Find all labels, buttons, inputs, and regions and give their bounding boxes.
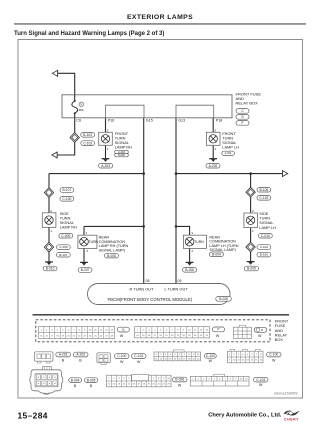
svg-text:W: W (209, 359, 213, 363)
table tab (173, 350, 184, 352)
connector label B-004 (69, 378, 82, 383)
splice connector B-103/C-103 (70, 133, 79, 143)
wire down to rear lamp RH pin 4 (83, 226, 85, 235)
connector label C-102 (132, 354, 147, 359)
ground side RH ground (45, 262, 53, 265)
svg-text:2: 2 (107, 128, 109, 132)
connector label B-205 (244, 266, 258, 271)
connector label C-010 (259, 233, 273, 238)
wire through fuse (74, 95, 76, 101)
svg-text:C-100: C-100 (62, 197, 71, 201)
svg-text:A-021: A-021 (225, 152, 232, 155)
svg-text:SIGNAL LAMP): SIGNAL LAMP) (99, 248, 126, 252)
connector label A-202 (206, 163, 220, 168)
connector label B-207 (78, 268, 92, 273)
wire lower splice RH to ground (48, 252, 50, 263)
ground front LH lamp ground (209, 159, 217, 162)
svg-text:TURN: TURN (89, 240, 99, 244)
diagram border frame (18, 40, 303, 399)
fuse box strip connector G (117, 327, 129, 332)
svg-text:2: 2 (215, 128, 217, 132)
svg-text:4: 4 (191, 231, 193, 235)
wire side lamp RH to lower splice (48, 228, 50, 243)
internal bus G13-P18 (176, 105, 214, 118)
off-page arrow (hazard feed, upper left) (52, 70, 57, 77)
header rule (14, 23, 306, 24)
fuse box strip connector CD (254, 327, 266, 332)
wire rear lamp LH to ground (189, 248, 191, 262)
connector label B-006 small (115, 153, 129, 157)
svg-text:W: W (178, 383, 182, 387)
svg-text:B: B (79, 359, 82, 363)
svg-text:W: W (137, 360, 141, 364)
splice connector splice LH upper (246, 187, 255, 197)
svg-text:C-103: C-103 (83, 141, 92, 145)
svg-text:LAMP LH: LAMP LH (222, 144, 239, 149)
wire splice to side turn signal lamp RH (48, 197, 50, 213)
svg-text:P: P (217, 328, 219, 332)
fuse box pin table 2 (135, 327, 210, 338)
svg-text:xterna150059: xterna150059 (274, 391, 298, 396)
svg-text:RELAY BOX: RELAY BOX (236, 101, 259, 106)
connector label B-106 (257, 187, 271, 192)
relay pin grid (234, 325, 252, 338)
svg-text:30A: 30A (78, 108, 84, 112)
svg-text:2: 2 (50, 209, 52, 213)
wire G13 to FBCM pin 09 (175, 118, 177, 284)
off-page arrow (to page 3, right) (283, 170, 288, 177)
connector label B-206 (183, 268, 197, 273)
svg-text:P: P (241, 121, 243, 125)
svg-text:1: 1 (50, 229, 52, 233)
wire splice to side turn signal lamp LH (250, 197, 252, 213)
svg-text:L TURN OUT: L TURN OUT (165, 287, 189, 292)
connector label A-203 (73, 352, 88, 357)
connector label C-100 (115, 354, 130, 359)
svg-text:B-210: B-210 (46, 267, 55, 271)
wire fuse output C6 to splice (74, 118, 76, 133)
svg-text:G13: G13 (178, 119, 185, 123)
svg-text:LAMP RH: LAMP RH (115, 144, 132, 149)
fuse box connector C (236, 109, 249, 114)
connector label C-009 (59, 233, 73, 238)
splice connector splice LH lower (246, 242, 255, 252)
svg-text:G15: G15 (146, 119, 153, 123)
connector label C-120 (205, 354, 217, 359)
junction node side LH (249, 172, 252, 175)
svg-text:B-026: B-026 (175, 378, 184, 382)
front turn signal lamp LH (206, 132, 220, 145)
rear combination lamp RH (turn signal lamp) (78, 235, 99, 248)
svg-text:C-120: C-120 (206, 354, 215, 358)
connector label C-102 (257, 245, 271, 250)
junction node G15/side RH (142, 172, 145, 175)
connector table C-100b (227, 351, 263, 363)
svg-text:B: B (62, 359, 65, 363)
svg-text:15–284: 15–284 (18, 411, 48, 421)
svg-text:W: W (272, 358, 276, 362)
fuse box connector G (236, 115, 249, 120)
svg-text:A-202: A-202 (59, 353, 68, 357)
connector table C-120 (154, 352, 201, 361)
svg-text:W: W (216, 334, 220, 338)
svg-text:1: 1 (215, 147, 217, 151)
svg-text:BOX: BOX (275, 337, 284, 342)
connector label B-004 (209, 252, 223, 257)
connector table B-026 (107, 375, 172, 387)
fuse box connector P (236, 121, 249, 126)
splice connector splice RH upper (44, 188, 53, 198)
svg-text:3: 3 (191, 249, 193, 253)
svg-text:A-202: A-202 (209, 164, 218, 168)
rear combination lamp LH (turn signal lamp) (183, 235, 206, 248)
connector label B-026 (173, 377, 188, 382)
ground rear RH ground (80, 262, 88, 265)
wire front turn signal lamp RH to ground (105, 145, 107, 159)
svg-text:Chery Automobile Co., Ltd.: Chery Automobile Co., Ltd. (208, 412, 282, 418)
side turn signal lamp LH (244, 213, 258, 228)
svg-text:C-103: C-103 (256, 378, 265, 382)
connector face C-100/C-102 (97, 353, 110, 365)
svg-text:A-203: A-203 (101, 164, 110, 168)
front fuse and relay box (62, 95, 232, 118)
svg-text:B-106: B-106 (259, 188, 268, 192)
svg-text:TURN: TURN (194, 240, 204, 244)
svg-text:2: 2 (252, 209, 254, 213)
off-page arrow (to page 1, lower left) (52, 152, 57, 159)
svg-text:C-102: C-102 (260, 245, 269, 249)
svg-text:B-005: B-005 (107, 254, 116, 258)
svg-text:W: W (258, 334, 262, 338)
svg-text:C-100: C-100 (269, 353, 278, 357)
svg-text:C-010: C-010 (261, 234, 270, 238)
connector label C-103 (81, 141, 95, 146)
connector label A-203 small (115, 150, 129, 154)
svg-text:B-106: B-106 (260, 253, 268, 257)
wire branch to rear combination lamp RH (84, 225, 144, 227)
svg-text:C-102: C-102 (259, 196, 268, 200)
connector label C-100 (60, 197, 74, 202)
svg-text:A-203: A-203 (76, 353, 85, 357)
svg-text:1: 1 (252, 229, 254, 233)
table tabs (230, 349, 235, 351)
connector label B-107 (57, 252, 71, 257)
internal bus P16-G15 (106, 105, 145, 118)
ground front RH lamp ground (102, 159, 110, 162)
svg-text:B-006: B-006 (118, 154, 125, 157)
wire G15 to FBCM pin 08 (143, 118, 145, 284)
junction node G13/rear LH (175, 225, 178, 228)
wire down to splice LH (250, 174, 252, 188)
svg-text:B-107: B-107 (62, 188, 71, 192)
wire branch to rear combination lamp LH pin 4 (176, 226, 190, 235)
svg-text:C6: C6 (76, 119, 81, 123)
svg-text:B: B (90, 384, 93, 388)
svg-text:CHERY: CHERY (284, 417, 299, 421)
svg-text:R TURN OUT: R TURN OUT (130, 287, 155, 292)
connector label B-107 (60, 188, 74, 193)
svg-text:P18: P18 (216, 119, 223, 123)
connector face B-004/B-005 (8 pin) (30, 367, 63, 395)
FBCM front body control module (88, 284, 231, 305)
connector label B-106 (257, 252, 271, 257)
separator rule (33, 314, 290, 316)
svg-text:1: 1 (107, 147, 109, 151)
wire front turn signal lamp LH to ground (212, 145, 214, 159)
connector label B-005 (105, 253, 119, 258)
svg-text:B-026: B-026 (219, 297, 228, 301)
side turn signal lamp RH (42, 213, 56, 228)
ground side LH ground (247, 262, 255, 265)
svg-text:C-102: C-102 (134, 354, 143, 358)
svg-text:08: 08 (146, 279, 150, 283)
svg-text:B-103: B-103 (83, 133, 92, 137)
dashed front fuse and relay box (36, 320, 270, 342)
svg-text:W: W (120, 360, 124, 364)
wire rear lamp RH to ground (83, 248, 85, 262)
wire P18 to front turn signal lamp LH (212, 118, 214, 133)
connector label A-202 (56, 352, 71, 357)
connector label A-203 (99, 163, 113, 168)
connector label B-103 (81, 133, 95, 138)
svg-text:C-100: C-100 (117, 354, 126, 358)
table tab gap (132, 375, 149, 381)
connector label B-005 (85, 378, 98, 383)
svg-text:C-100: C-100 (59, 245, 68, 249)
svg-text:B-004: B-004 (71, 378, 80, 382)
svg-text:Turn Signal and Hazard Warning: Turn Signal and Hazard Warning Lamps (Pa… (14, 31, 164, 37)
svg-text:LAMP LH: LAMP LH (259, 225, 276, 230)
wire P16 to front turn signal lamp RH (105, 118, 107, 133)
junction node G13/left-turn (175, 172, 178, 175)
svg-text:B-004: B-004 (212, 253, 221, 257)
connector label C-102 (257, 196, 271, 201)
splice connector splice RH lower (44, 242, 53, 252)
svg-text:4: 4 (86, 231, 88, 235)
connector label C-100 (267, 352, 282, 357)
wire splice to off-page connector (56, 142, 75, 155)
connector label C-100 (57, 245, 71, 250)
wire lower splice LH to ground (250, 252, 252, 263)
fuse EF 30A (72, 100, 85, 114)
svg-text:W: W (259, 383, 263, 387)
svg-text:LAMP RH: LAMP RH (60, 225, 77, 230)
svg-text:B-206: B-206 (185, 268, 194, 272)
svg-text:B: B (74, 384, 77, 388)
svg-text:B-205: B-205 (247, 267, 256, 271)
svg-text:FBCM(FRONT BODY CONTROL MODULE: FBCM(FRONT BODY CONTROL MODULE) (108, 297, 193, 302)
junction node G15/rear RH (142, 225, 145, 228)
svg-text:W: W (120, 334, 124, 338)
fuse box pin table 1 (39, 327, 115, 339)
svg-text:P16: P16 (108, 119, 115, 123)
svg-text:EXTERIOR LAMPS: EXTERIOR LAMPS (127, 14, 193, 21)
connector label B-210 (43, 266, 57, 271)
wire side lamp LH to lower splice (250, 228, 252, 243)
connector face A-202/A-203 (35, 352, 54, 363)
svg-text:B-107: B-107 (59, 253, 67, 257)
svg-text:09: 09 (178, 279, 182, 283)
svg-text:B-207: B-207 (81, 268, 90, 272)
connector table C-103 (190, 374, 249, 386)
connector label B-026 (216, 296, 232, 301)
fuse box strip connector P (212, 327, 224, 332)
wire down to splice RH (48, 174, 50, 189)
wire right-turn branch to side lamp RH (49, 173, 144, 175)
front turn signal lamp RH (99, 132, 113, 145)
connector label C-103 (254, 377, 269, 382)
connector label A-021 small (222, 151, 235, 155)
chery logo (284, 411, 301, 422)
wire battery feed to fuse box (53, 73, 75, 95)
svg-text:C-009: C-009 (61, 234, 70, 238)
wire left-turn branch to off-page arrow (176, 173, 283, 175)
ground rear LH ground (186, 262, 194, 265)
svg-text:3: 3 (86, 249, 88, 253)
svg-text:B-005: B-005 (87, 378, 96, 382)
